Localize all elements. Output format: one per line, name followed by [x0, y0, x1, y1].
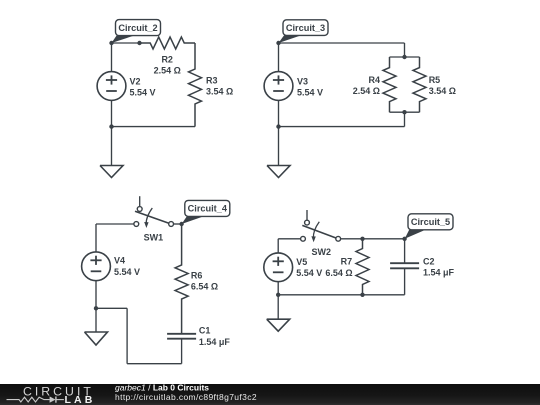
svg-text:R2: R2 — [161, 55, 173, 65]
svg-text:6.54 Ω: 6.54 Ω — [191, 282, 218, 292]
svg-text:SW2: SW2 — [312, 247, 332, 257]
svg-text:Circuit_5: Circuit_5 — [411, 217, 450, 227]
svg-text:Circuit_3: Circuit_3 — [286, 23, 325, 33]
svg-text:2.54 Ω: 2.54 Ω — [154, 66, 181, 76]
svg-text:SW1: SW1 — [144, 233, 164, 243]
svg-text:Circuit_4: Circuit_4 — [188, 204, 228, 214]
svg-text:5.54 V: 5.54 V — [130, 87, 156, 97]
svg-text:LAB: LAB — [65, 394, 96, 405]
svg-text:2.54 Ω: 2.54 Ω — [353, 86, 380, 96]
svg-text:1.54 μF: 1.54 μF — [423, 267, 455, 277]
svg-text:R5: R5 — [429, 75, 441, 85]
svg-text:Circuit_2: Circuit_2 — [118, 23, 157, 33]
svg-text:V3: V3 — [297, 76, 308, 86]
svg-text:3.54 Ω: 3.54 Ω — [206, 86, 233, 96]
svg-text:3.54 Ω: 3.54 Ω — [429, 86, 456, 96]
svg-text:V4: V4 — [114, 256, 125, 266]
svg-text:V5: V5 — [296, 257, 307, 267]
svg-text:1.54 μF: 1.54 μF — [199, 337, 231, 347]
svg-text:R4: R4 — [368, 75, 380, 85]
svg-text:5.54 V: 5.54 V — [296, 268, 322, 278]
svg-text:garbec1 / Lab 0 Circuits: garbec1 / Lab 0 Circuits — [115, 383, 209, 393]
svg-text:5.54 V: 5.54 V — [297, 87, 323, 97]
svg-text:R6: R6 — [191, 271, 203, 281]
svg-text:5.54 V: 5.54 V — [114, 267, 140, 277]
svg-text:R3: R3 — [206, 75, 218, 85]
svg-text:C1: C1 — [199, 326, 211, 336]
svg-text:V2: V2 — [130, 76, 141, 86]
svg-text:http://circuitlab.com/c89ft8g7: http://circuitlab.com/c89ft8g7uf3c2 — [115, 392, 257, 402]
svg-text:R7: R7 — [341, 257, 353, 267]
svg-text:6.54 Ω: 6.54 Ω — [325, 268, 352, 278]
svg-text:C2: C2 — [423, 257, 435, 267]
